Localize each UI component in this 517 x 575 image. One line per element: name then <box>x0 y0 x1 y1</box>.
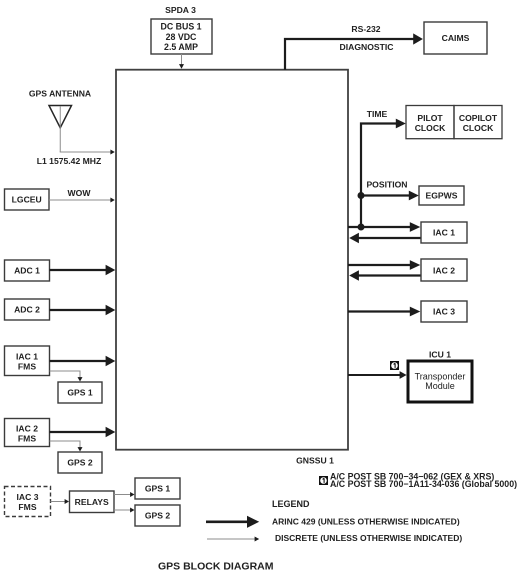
svg-text:FMS: FMS <box>18 434 36 444</box>
svg-text:ARINC 429 (UNLESS OTHERWISE IN: ARINC 429 (UNLESS OTHERWISE INDICATED) <box>272 517 460 527</box>
svg-text:CLOCK: CLOCK <box>415 123 446 133</box>
GPS 2 box (bottom) <box>135 505 180 526</box>
svg-text:GPS ANTENNA: GPS ANTENNA <box>29 89 91 99</box>
PILOT CLOCK box <box>406 106 454 139</box>
ADC 1 box <box>5 260 50 281</box>
svg-text:LGCEU: LGCEU <box>12 195 42 205</box>
wire IAC 1 return to GNSSU <box>349 233 421 244</box>
wire GNSSU RS-232 to CAIMS (ARINC style) <box>285 33 423 69</box>
svg-text:EGPWS: EGPWS <box>426 191 458 201</box>
wire RELAYS to GPS 1 (discrete) <box>114 492 135 497</box>
ADC 2 box <box>5 299 50 320</box>
Transponder Module box <box>408 361 472 402</box>
svg-text:IAC 3: IAC 3 <box>17 492 39 502</box>
footnote marker 1 (at transponder wire) <box>390 361 399 370</box>
svg-text:GPS 2: GPS 2 <box>145 511 171 521</box>
wire GNSSU to IAC 2 <box>348 260 420 270</box>
IAC 1 box <box>421 222 467 243</box>
wire to EGPWS <box>361 191 419 201</box>
svg-text:GPS 1: GPS 1 <box>67 388 93 398</box>
wire RELAYS to GPS 2 (discrete) <box>114 508 135 513</box>
COPILOT CLOCK box <box>454 106 502 139</box>
svg-text:IAC 1: IAC 1 <box>433 228 455 238</box>
wire antenna to GNSSU <box>60 150 115 155</box>
footnote marker 1 (legend note) <box>319 476 328 485</box>
wire IAC 3 FMS to RELAYS (discrete) <box>51 499 70 504</box>
svg-text:POSITION: POSITION <box>366 180 407 190</box>
svg-text:COPILOT: COPILOT <box>459 113 498 123</box>
junction dot (EGPWS tap) <box>358 192 365 199</box>
svg-text:ADC 1: ADC 1 <box>14 266 40 276</box>
svg-text:GNSSU 1: GNSSU 1 <box>296 456 334 466</box>
svg-text:DISCRETE (UNLESS OTHERWISE IND: DISCRETE (UNLESS OTHERWISE INDICATED) <box>275 533 462 543</box>
svg-text:LEGEND: LEGEND <box>272 499 310 509</box>
svg-text:ICU 1: ICU 1 <box>429 350 451 360</box>
svg-text:CAIMS: CAIMS <box>442 33 470 43</box>
GPS 2 box (mid) <box>58 452 102 473</box>
svg-text:IAC 3: IAC 3 <box>433 307 455 317</box>
wire IAC 1 FMS to GNSSU (ARINC 429) <box>50 356 116 366</box>
svg-text:TIME: TIME <box>367 109 388 119</box>
svg-text:DIAGNOSTIC: DIAGNOSTIC <box>340 42 394 52</box>
IAC 2 FMS box <box>5 419 50 447</box>
wire LGCEU WOW to GNSSU <box>49 198 115 203</box>
svg-text:RELAYS: RELAYS <box>75 497 109 507</box>
wire POSITION out of GNSSU to IAC 1 <box>348 222 420 232</box>
svg-text:Module: Module <box>425 381 455 391</box>
wire GNSSU to IAC 3 <box>348 307 420 317</box>
EGPWS box <box>419 186 464 205</box>
svg-text:IAC 2: IAC 2 <box>16 424 38 434</box>
svg-text:GPS 1: GPS 1 <box>145 484 171 494</box>
antenna symbol <box>49 106 72 153</box>
svg-text:ADC 2: ADC 2 <box>14 305 40 315</box>
junction dot (IAC 1 tap) <box>358 224 365 231</box>
svg-text:FMS: FMS <box>18 362 36 372</box>
wire IAC 2 FMS to GNSSU (ARINC 429) <box>50 427 116 437</box>
IAC 2 box <box>421 259 467 281</box>
GPS 1 box (bottom) <box>135 478 180 499</box>
svg-text:GPS BLOCK DIAGRAM: GPS BLOCK DIAGRAM <box>158 561 274 573</box>
wire IAC 2 FMS to GPS 2 (discrete) <box>50 441 83 452</box>
svg-text:IAC 2: IAC 2 <box>433 266 455 276</box>
IAC 3 FMS box (dashed) <box>5 487 51 517</box>
LGCEU box <box>5 189 50 210</box>
RELAYS box <box>70 491 115 513</box>
svg-text:IAC 1: IAC 1 <box>16 352 38 362</box>
wire ADC 1 to GNSSU (ARINC 429) <box>50 265 116 275</box>
svg-text:2.5 AMP: 2.5 AMP <box>164 42 198 52</box>
svg-text:DC BUS 1: DC BUS 1 <box>160 22 201 32</box>
IAC 1 FMS box <box>5 346 50 376</box>
GPS 1 box (mid) <box>58 382 102 403</box>
wire GNSSU to Transponder Module <box>348 371 407 379</box>
svg-text:RS-232: RS-232 <box>351 24 380 34</box>
IAC 3 box <box>421 301 467 322</box>
svg-text:WOW: WOW <box>68 188 92 198</box>
legend ARINC 429 arrow <box>206 516 259 528</box>
svg-text:28 VDC: 28 VDC <box>166 32 197 42</box>
wire IAC 1 FMS to GPS 1 (discrete) <box>50 371 83 382</box>
CAIMS box <box>424 22 487 54</box>
svg-text:CLOCK: CLOCK <box>463 123 494 133</box>
wire ADC 2 to GNSSU (ARINC 429) <box>50 305 116 315</box>
GNSSU 1 main unit box <box>116 70 348 450</box>
wire TIME to clocks <box>361 119 406 227</box>
svg-text:L1 1575.42 MHZ: L1 1575.42 MHZ <box>37 156 101 166</box>
wire IAC 2 return to GNSSU <box>349 270 421 281</box>
svg-text:SPDA 3: SPDA 3 <box>165 5 196 15</box>
svg-text:A/C POST SB 700−1A11-34-036 (G: A/C POST SB 700−1A11-34-036 (Global 5000… <box>330 479 517 489</box>
svg-text:FMS: FMS <box>18 502 36 512</box>
legend DISCRETE arrow <box>207 537 259 542</box>
svg-text:PILOT: PILOT <box>417 113 443 123</box>
svg-text:GPS 2: GPS 2 <box>67 458 93 468</box>
wire DC BUS to GNSSU (discrete down arrow) <box>179 54 184 69</box>
power source DC BUS 1 box <box>151 19 212 54</box>
